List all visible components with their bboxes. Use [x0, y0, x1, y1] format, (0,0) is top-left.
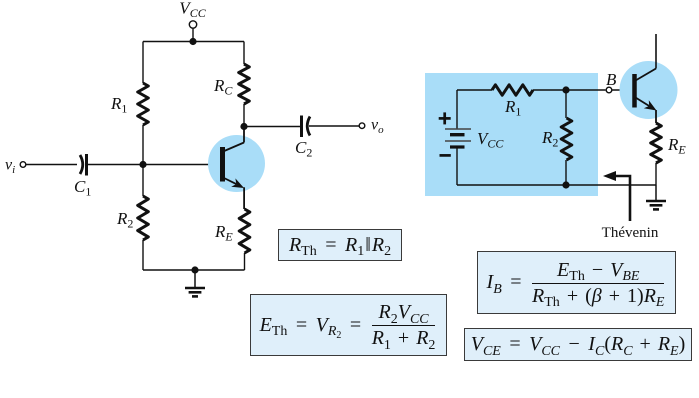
formula box R_Th = R1 parallel R2 — [278, 229, 402, 261]
wire node to R2 — [565, 90, 567, 118]
formula box V_CE equation — [464, 328, 692, 361]
resistor RC — [239, 64, 250, 104]
junction dot R2 bottom — [562, 181, 569, 188]
VCC terminal circle — [189, 21, 196, 28]
wire B to base — [612, 89, 633, 91]
wire ground rail — [143, 269, 245, 271]
capacitor C2 — [300, 116, 303, 138]
junction dot ground rail — [191, 266, 198, 273]
formula box E_Th equation — [250, 294, 447, 356]
capacitor C1 — [80, 155, 83, 174]
svg-text:Thévenin: Thévenin — [602, 225, 659, 241]
wire bottom rail — [457, 184, 656, 186]
svg-text:R2: R2 — [116, 209, 133, 231]
plus sign — [439, 117, 451, 120]
thevenin callout arrow — [612, 176, 630, 221]
svg-text:RE: RE — [214, 222, 233, 244]
resistor R1 — [138, 83, 149, 125]
resistor R2 — [138, 196, 149, 240]
wire RE to bottom rail — [655, 163, 657, 185]
wire emitter to RE — [655, 110, 657, 123]
battery VCC — [445, 129, 471, 147]
resistor R1 (right circuit) — [492, 85, 533, 95]
svg-text:vi: vi — [5, 157, 15, 177]
junction dot at VCC rail — [189, 38, 196, 45]
node vo output — [359, 123, 365, 129]
formula box I_B equation — [477, 251, 676, 314]
svg-text:C1: C1 — [74, 177, 91, 199]
svg-text:vo: vo — [371, 117, 384, 137]
wire top rail — [143, 41, 244, 43]
wire RE to ground rail — [244, 253, 246, 270]
junction dot collector node — [240, 123, 247, 130]
svg-text:VCC: VCC — [179, 0, 206, 20]
wire emitter to RE — [243, 187, 245, 209]
wire R2 to ground rail — [142, 240, 144, 270]
wire C1 to base node — [87, 164, 144, 166]
wire R2 to bottom rail — [565, 160, 567, 185]
svg-text:B: B — [606, 70, 617, 89]
wire collector node to C2 — [244, 126, 300, 128]
junction dot R1-R2 node — [562, 86, 569, 93]
wire top rail to RC — [243, 42, 245, 65]
wire VCC terminal to top rail — [192, 28, 194, 41]
wire node to B terminal — [566, 89, 606, 91]
wire battery + to R1 — [457, 89, 492, 91]
ground (right circuit) — [655, 185, 657, 200]
minus sign — [440, 154, 451, 157]
wire C2 to vo — [309, 125, 359, 127]
transistor Q1 — [208, 135, 265, 192]
wire battery - to bottom rail — [456, 147, 458, 185]
transistor Q2 — [620, 61, 678, 119]
wire base node to transistor base — [143, 164, 221, 166]
wire R1 to node — [533, 89, 566, 91]
wire collector up — [655, 34, 657, 69]
wire base node to R2 — [142, 165, 144, 197]
resistor R2 (right circuit) — [561, 118, 572, 160]
svg-text:RE: RE — [667, 135, 686, 157]
resistor RE (left circuit) — [239, 209, 250, 253]
wire vi to C1 — [26, 164, 77, 166]
ground (left circuit) — [194, 270, 196, 287]
junction dot base node — [139, 161, 146, 168]
wire R1 to base node — [142, 125, 144, 165]
resistor RE (right circuit) — [651, 123, 662, 163]
svg-text:C2: C2 — [295, 138, 312, 160]
wire RC to collector node — [243, 104, 245, 127]
wire collector node to transistor — [243, 127, 245, 143]
thevenin source region (blue box) — [425, 73, 598, 196]
svg-text:R1: R1 — [110, 94, 127, 116]
svg-text:RC: RC — [213, 76, 233, 98]
wire top rail to R1 — [142, 42, 144, 84]
